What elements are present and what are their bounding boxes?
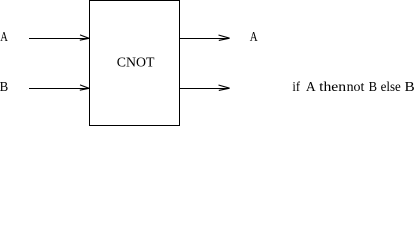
CNOT gate box U1 — [90, 1, 180, 126]
arrowhead input A — [80, 35, 89, 40]
svg-text:B: B — [0, 79, 8, 95]
wire output B — [180, 88, 230, 90]
wire input A — [29, 38, 90, 40]
svg-text:A: A — [250, 29, 258, 45]
wire output A — [180, 38, 230, 40]
svg-text:ifAthennotBelseB: ifAthennotBelseB — [292, 80, 414, 95]
arrowhead output B — [219, 85, 230, 90]
svg-text:CNOT: CNOT — [117, 55, 155, 70]
arrowhead input B — [80, 85, 89, 90]
arrowhead output A — [219, 35, 230, 40]
wire input B — [29, 88, 90, 90]
svg-text:A: A — [0, 29, 8, 45]
